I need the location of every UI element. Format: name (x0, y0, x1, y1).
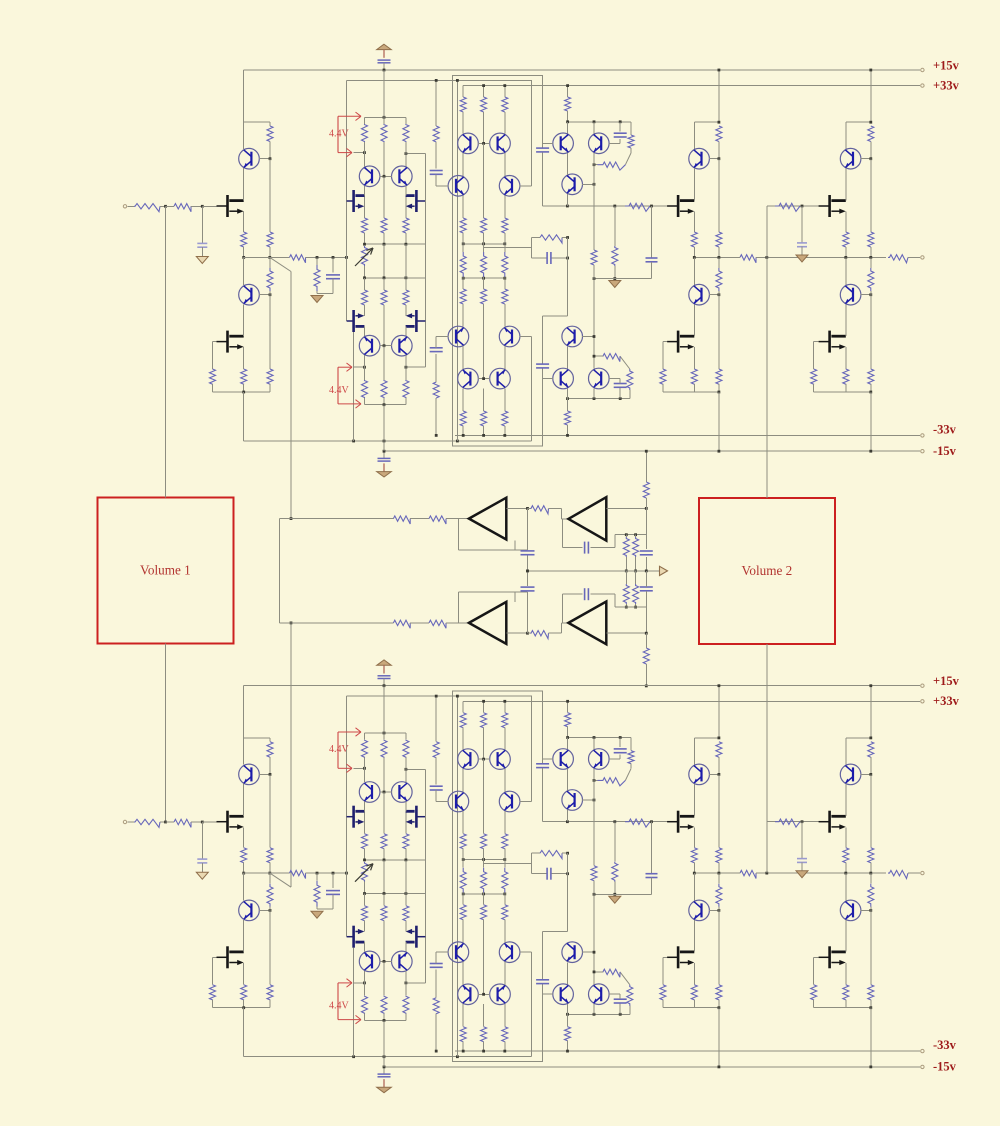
wire center upper bases (478, 142, 490, 144)
wire U2 feedback loop (457, 592, 459, 623)
wire base column down (269, 159, 271, 232)
resistor center emitter left (460, 252, 466, 277)
wire center row upper (463, 243, 505, 245)
wire VAS row lower (365, 277, 426, 279)
transistor Q5 (VAS lower pair left) (359, 335, 380, 356)
wire Q20 base (609, 378, 620, 380)
resistor U2 to U4 (531, 631, 549, 639)
wire emitter rail left block (244, 121, 270, 123)
wire RC bottom (317, 293, 333, 295)
wire VAS lower pair bases (380, 345, 392, 347)
wire driver A lower emitter (567, 347, 569, 369)
resistor VAS mid center (381, 218, 387, 233)
resistor center mid-lower left (460, 289, 466, 304)
transistor Q3 (VAS pair left) (359, 166, 380, 187)
wire buffer supply column upper (645, 451, 647, 482)
svg-text:Volume 2: Volume 2 (742, 563, 793, 578)
wire Q17 base (582, 183, 594, 185)
output terminal (921, 256, 924, 259)
ground arrow (gate divider) (609, 281, 621, 288)
wire M9 source (845, 212, 847, 232)
wire power column to -15v (383, 405, 385, 452)
wire M8 source (693, 347, 695, 369)
wire Q19 base (543, 378, 553, 380)
wire U3 output (606, 507, 646, 509)
wire +15v drop block3 (870, 70, 872, 122)
wire block3 to -15v (870, 392, 872, 451)
wire U1 output (506, 507, 527, 509)
wire box column lower (542, 316, 544, 364)
resistor VAS bottom left (362, 380, 368, 398)
transistor Q22 (PNP lower block2) (693, 257, 695, 285)
svg-text:-33v: -33v (933, 423, 957, 437)
wire buffer input tie (279, 519, 281, 623)
mosfet M4 (navy, VAS right) (406, 190, 426, 212)
wire center columns bottom (462, 346, 464, 369)
wire Q23 base (861, 158, 871, 160)
resistor center mid-lower mid (481, 289, 487, 304)
resistor Q24 base (870, 257, 872, 268)
wire +15v power column to VAS (383, 70, 385, 117)
wire Q2 base (259, 294, 270, 296)
wire block2 to -15v (718, 392, 720, 451)
wire driver column mid (567, 238, 569, 316)
wire Q20 column (593, 356, 595, 369)
resistor output row 2 (740, 255, 756, 263)
wire output node to Volume 2 (766, 257, 768, 498)
resistor center emitter right (502, 252, 508, 277)
wire driver C to gate bus (566, 194, 568, 206)
ground arrow (gate block3) (796, 255, 808, 262)
wire Q21 base (709, 158, 719, 160)
wire M10 source (845, 347, 847, 369)
resistor buffer2 input b (429, 620, 446, 628)
transistor Q15 (driver A) (567, 122, 569, 134)
resistor VAS bottom right (403, 380, 409, 398)
wire buffer2 input row (280, 622, 394, 624)
capacitor bias left upper (435, 80, 437, 126)
wire Volume 2 to channel 2 (766, 644, 768, 873)
transistor Q9 (center lower-left) (448, 176, 469, 197)
svg-text:4.4V: 4.4V (329, 385, 350, 396)
wire bottom row block2 (663, 391, 719, 393)
mosfet M3 (navy, VAS left) (347, 190, 365, 212)
resistor gate to ground (614, 206, 616, 246)
wire driver A emitter down (567, 153, 569, 175)
node output junction (765, 256, 768, 259)
transistor Q21 (PNP upper block2) (693, 122, 695, 149)
transistor Q1 (PNP upper left) (243, 122, 245, 149)
node gate R junction (650, 205, 653, 208)
wire Q22 base column (718, 295, 720, 369)
capacitor to ground (332, 257, 334, 272)
mosfet M7 (black, block2) (667, 195, 694, 217)
wire diagonal feedback takeoff (270, 257, 291, 271)
resistor gate divider (625, 203, 650, 211)
transistor Q18 (driver C lower) (562, 326, 583, 347)
resistor base block3 top (868, 126, 874, 142)
node input junction (164, 205, 167, 208)
node source junction (242, 256, 245, 259)
power rail +33v (347, 79, 532, 81)
wire divider bottom (594, 278, 652, 280)
ground arrow (input cap) (196, 257, 208, 264)
wire driver diagonal (625, 153, 631, 165)
wire output row left segment (244, 256, 290, 258)
node RC junction (201, 205, 204, 208)
svg-text:+33v: +33v (933, 78, 960, 92)
resistor center mid-upper right (504, 196, 506, 219)
capacitor feedback lower (in box column) (536, 363, 549, 365)
capacitor driver lower (619, 387, 621, 398)
wire M6 drain lead (405, 326, 407, 336)
wire center bottom bases (478, 378, 490, 380)
resistor source block3 (843, 232, 849, 247)
resistor source lower left (241, 369, 247, 384)
wire VAS pair collectors down (364, 186, 366, 218)
wire Q16 base (609, 142, 620, 144)
buffer amplifier U2 (triangle) (469, 602, 506, 644)
wire M1 drain (243, 168, 245, 200)
mosfet M5 (navy, VAS lower left) (347, 310, 365, 332)
wire base column block3 (870, 159, 872, 232)
mosfet M9 (black, block3) (819, 195, 846, 217)
resistor output terminal (888, 255, 908, 263)
resistor center top left (462, 86, 464, 97)
capacitor output upper (640, 550, 653, 552)
wire U4 feedback down (615, 606, 646, 608)
wire output row right (694, 256, 738, 258)
resistor VAS mid right (403, 218, 409, 233)
buffer amplifier U1 (triangle) (469, 498, 506, 540)
resistor center mid-upper mid (483, 143, 485, 218)
wire gate bus upper (543, 205, 679, 207)
resistor center bottom right (504, 388, 506, 411)
transistor Q14 (center bottom pair right) (490, 368, 511, 389)
wire M2 gate loop (213, 341, 217, 343)
node gate3 junction (801, 205, 804, 208)
capacitor U1 output (527, 508, 529, 550)
wire M7 source (693, 212, 695, 232)
wire Q12 base column (520, 336, 532, 338)
wire M10 gate loop (814, 341, 819, 343)
wire VAS row upper (365, 243, 426, 245)
mosfet M2 (black, lower left) (217, 331, 244, 353)
wire M2 drain (243, 305, 245, 337)
wire U3 feedback up (614, 535, 616, 548)
wire driver bottom row (568, 398, 630, 400)
wire bottom junction row left block (213, 391, 271, 393)
trimmer resistor (shared) (362, 246, 368, 266)
wire M6 source lead (405, 305, 407, 316)
transistor Q6 (VAS lower pair right) (392, 335, 413, 356)
input resistor R1 (127, 205, 134, 207)
resistor buffer2 input a (393, 620, 410, 628)
resistor base lower left (267, 369, 273, 384)
wire M1 source (243, 212, 245, 232)
power symbol +15v arrow and capacitor (377, 44, 392, 49)
wire box column upper (542, 152, 544, 206)
wire lower stub bus (543, 315, 568, 317)
transistor Q19 (driver A lower) (553, 368, 574, 389)
resistor driver top (567, 86, 569, 97)
wire center output (528, 570, 661, 572)
transistor Q20 (driver B lower) (589, 368, 610, 389)
wire trimmer to lower row (364, 266, 366, 278)
wire VAS bottom row (365, 404, 406, 406)
resistor buffer1 input a (393, 516, 410, 524)
mosfet M10 (black, block3 lower) (819, 331, 846, 353)
resistor VAS mid left (362, 218, 368, 233)
wire VAS top row (365, 116, 406, 118)
resistor center top right (504, 86, 506, 97)
wire bias stub upper left (354, 152, 365, 154)
node row-resistor junction (316, 256, 319, 259)
wire bias stub lower left (354, 366, 365, 368)
resistor VAS bottom mid (381, 380, 387, 398)
resistor center emitter mid (481, 252, 487, 277)
node row end junction (345, 256, 348, 259)
resistor VAS top right (403, 124, 409, 142)
resistor damping lower b (633, 584, 639, 604)
wire base column block2 (718, 159, 720, 232)
wire Q22 base (709, 294, 719, 296)
resistor buffer supply lower (643, 648, 649, 664)
wire Volume 1 to channel 2 input (165, 643, 167, 822)
wire VAS pair bases (380, 175, 392, 177)
transistor Q7 (center upper pair left) (458, 133, 479, 154)
capacitor gate divider (651, 206, 653, 258)
wire input to Volume 1 (165, 206, 167, 497)
input capacitor to ground (201, 206, 203, 243)
wire loop box (453, 75, 543, 445)
resistor buffer supply upper (643, 482, 649, 498)
wire +15v drop to left block (243, 70, 245, 122)
resistor source lower block2 (691, 369, 697, 384)
power symbol -15v arrow and capacitor (383, 451, 385, 458)
resistor buffer1 input b (429, 516, 446, 524)
resistor driver bottom (567, 388, 569, 398)
wire +33v feed bus (463, 85, 920, 87)
wire U1 feedback loop (457, 519, 459, 550)
resistor center bottom left (462, 388, 464, 411)
wire M8 drain (693, 305, 695, 337)
transistor Q17 (driver C) (562, 174, 583, 195)
resistor center bottom mid (483, 388, 485, 411)
resistor Q2 base (269, 257, 271, 268)
resistor base block3 lower (868, 232, 874, 247)
wire RC loop feed (484, 247, 532, 249)
resistor base left top (269, 122, 271, 126)
svg-text:Volume 1: Volume 1 (140, 563, 191, 578)
wire Q2 base column down (269, 295, 271, 369)
resistor source block2 (691, 232, 697, 247)
resistor base block2 top (716, 126, 722, 142)
wire left block to center bottom (243, 392, 245, 441)
capacitor U4 feedback (584, 588, 586, 600)
mosfet M6 (navy, VAS lower right) (406, 310, 426, 332)
resistor output row horizontal (290, 255, 306, 263)
transistor Q8 (center upper pair right) (490, 133, 511, 154)
wire driver lower diagonal (620, 356, 630, 369)
mosfet M1 (black, left) (217, 195, 244, 217)
svg-text:+15v: +15v (933, 58, 960, 72)
wire M5 source lead (364, 305, 366, 316)
resistor RC loop (532, 237, 541, 239)
capacitor U2 output (527, 592, 529, 633)
power rail +15v (244, 69, 920, 71)
wire Q18 base (582, 336, 594, 338)
wire Q24 base (861, 294, 871, 296)
resistor to ground arrow (316, 257, 318, 265)
wire center columns to lower pair (462, 153, 464, 176)
wire U2 output (506, 632, 527, 634)
wire Q1 base (259, 158, 270, 160)
wire U4 output (606, 632, 646, 634)
wire Q24 base column (870, 295, 872, 369)
resistor center top mid (483, 86, 485, 97)
wire M7 drain (693, 168, 695, 200)
svg-text:4.4V: 4.4V (329, 129, 350, 140)
wire M2 source (243, 347, 245, 369)
resistor VAS lower-mid right (403, 290, 409, 305)
wire Q11 base to box (436, 336, 448, 338)
wire bias stub upper right (406, 153, 426, 155)
wire M3 drain lead (364, 186, 366, 196)
transistor Q13 (center bottom pair left) (458, 368, 479, 389)
wire feedback channel 1 down (290, 272, 292, 519)
transistor Q16 (driver B) (593, 122, 595, 134)
capacitor output lower (640, 586, 653, 588)
resistor gate block3 (775, 203, 800, 211)
wire +33v drop column (346, 80, 348, 321)
wire bottom row block3 (814, 391, 871, 393)
wire +33v corner drop (530, 80, 532, 185)
capacitor feedback upper (in box column) (536, 147, 549, 149)
wire buffer1 input row (280, 518, 394, 520)
resistor driver right (630, 122, 632, 135)
resistor damping lower a (623, 584, 629, 604)
resistor gate loop left (210, 369, 216, 384)
wire VAS center column (383, 244, 385, 278)
resistor base left lower (267, 232, 273, 247)
capacitor U3 feedback (584, 542, 586, 554)
resistor source lower block3 (843, 369, 849, 384)
capacitor bias left lower (435, 398, 437, 435)
mosfet M8 (black, block2 lower) (667, 331, 694, 353)
power rail -15v (384, 450, 920, 452)
wire emitter rail block3 (846, 121, 871, 123)
resistor driver lower feedback horizontal (603, 354, 620, 362)
volume control box Volume 1 (98, 498, 234, 644)
wire Q9 base corner (436, 185, 448, 187)
wire U4 feedback to input (562, 594, 564, 623)
resistor source left (241, 232, 247, 247)
transistor Q10 (center lower-right) (499, 176, 520, 197)
wire M10 drain (845, 305, 847, 337)
wire gate bar column down (353, 332, 355, 441)
wire inner loop left (456, 80, 458, 441)
wire M9 drain (845, 168, 847, 200)
wire Q10 base to +33 drop (520, 185, 532, 187)
wire M5 drain lead (364, 326, 366, 336)
wire M8 gate loop (663, 341, 667, 343)
buffer amplifier U4 (triangle) (568, 602, 606, 645)
transistor Q12 (center upper-right of bottom) (499, 326, 520, 347)
wire U3 input (560, 508, 562, 519)
resistor damping upper a (623, 537, 629, 557)
capacitor RC loop (532, 257, 547, 259)
input resistor R2 (166, 205, 175, 207)
resistor driver feedback horizontal (597, 162, 625, 170)
volume control box Volume 2 (699, 498, 835, 644)
resistor gate loop block2 (660, 369, 666, 384)
transistor Q23 (PNP upper block3) (845, 122, 847, 149)
resistor damping upper b (633, 537, 639, 557)
transistor Q2 (PNP lower left) (243, 257, 245, 285)
annotation 4.4V upper (337, 116, 339, 152)
resistor VAS lower-mid left (362, 290, 368, 305)
input terminal (123, 205, 126, 208)
resistor VAS top left (362, 124, 368, 142)
wire output to gate riser (766, 206, 768, 257)
resistor VAS top mid (381, 124, 387, 142)
wire center row lower (463, 277, 505, 279)
wire M4 drain lead (405, 186, 407, 196)
wire input to gate (202, 205, 216, 207)
svg-text:-15v: -15v (933, 444, 957, 458)
buffer amplifier U3 (triangle) (568, 497, 606, 540)
wire driver top row (568, 121, 631, 123)
annotation 4.4V lower (337, 367, 339, 404)
capacitor driver (619, 122, 621, 132)
wire +15v drop block2 (718, 70, 720, 122)
wire U3 feedback loop (562, 519, 564, 548)
channel 2 (bottom, duplicate of channel 1) (123, 660, 959, 1093)
wire M4 source lead (405, 206, 407, 218)
resistor base lower block2 (716, 369, 722, 384)
wire Q15 base (543, 142, 553, 144)
resistor driver lower right (629, 390, 631, 399)
wire driver B emitter column (593, 153, 595, 250)
output arrow (tan) (660, 566, 668, 575)
capacitor gate block3 (801, 206, 803, 243)
ground arrow (row RC) (311, 296, 323, 303)
wire gate bus lower (767, 205, 830, 207)
transistor Q4 (VAS pair right) (392, 166, 413, 187)
wire M4 gate column (425, 154, 427, 368)
resistor U1 to U3 (531, 506, 549, 514)
resistor Q22 base (718, 257, 720, 268)
resistor base block2 lower (716, 232, 722, 247)
power rail -33v (455, 434, 920, 436)
resistor base lower block3 (868, 369, 874, 384)
transistor Q24 (PNP lower block3) (845, 257, 847, 285)
wire buffer supply column lower (645, 664, 647, 686)
transistor Q11 (center upper-left of bottom) (448, 326, 469, 347)
resistor gate loop block3 (811, 369, 817, 384)
wire feedback channel 2 up (290, 623, 292, 887)
wire U4 input (560, 623, 562, 633)
wire bias stub lower right (406, 366, 426, 368)
resistor VAS lower-mid center (381, 290, 387, 305)
resistor center mid-lower right (502, 289, 508, 304)
wire RC loop left (531, 238, 533, 259)
node base junction row (268, 256, 271, 259)
wire M3 source lead (364, 206, 366, 218)
resistor center mid-upper left (462, 196, 464, 219)
wire emitter rail block2 (694, 121, 719, 123)
